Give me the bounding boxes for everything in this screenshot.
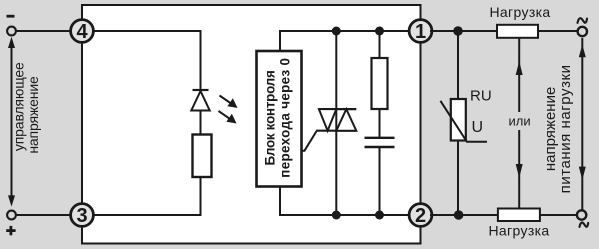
- wire load 1 to AC terminal: [538, 30, 578, 32]
- LED D1 cathode bar: [193, 89, 209, 91]
- or-arrow head up: [516, 61, 523, 75]
- resistor R1: [193, 135, 212, 178]
- svg-text:напряжение: напряжение: [25, 76, 41, 154]
- svg-text:2: 2: [415, 205, 426, 227]
- output bottom rail: [279, 214, 410, 216]
- output top rail: [279, 30, 410, 32]
- triac VS1 right triangle: [336, 109, 356, 131]
- junction dot varistor top: [453, 26, 463, 36]
- varistor wire bottom: [457, 141, 459, 216]
- wire: pin 3 to input terminal plus: [15, 214, 72, 216]
- triac VS1 left triangle: [319, 109, 336, 131]
- junction dot bottom RC: [375, 211, 384, 220]
- input terminal plus (open circle): [7, 211, 16, 220]
- wire: pin 4 to LED branch top: [92, 31, 201, 90]
- svg-text:RU: RU: [470, 88, 492, 105]
- control voltage arrow line: [11, 41, 13, 202]
- svg-text:1: 1: [415, 21, 426, 43]
- svg-text:3: 3: [76, 205, 87, 227]
- wire: resistor R1 bottom to pin 3: [92, 176, 201, 215]
- triac gate wire: [302, 131, 317, 151]
- tilde bottom: [580, 223, 589, 227]
- junction dot varistor bottom: [454, 210, 464, 220]
- snubber resistor R2: [372, 58, 388, 109]
- wire pin 2 to load 2: [430, 214, 499, 216]
- svg-text:питания нагрузки: питания нагрузки: [557, 64, 574, 193]
- load 1 box: [497, 25, 538, 38]
- triac VS1 vertical wire: [335, 31, 337, 215]
- wire pin 1 to load 1: [430, 30, 498, 32]
- load 2 box: [498, 209, 540, 222]
- LED emission arrow 1: [220, 96, 236, 107]
- pin 4 terminal: [71, 20, 94, 43]
- or-arrow head down: [516, 164, 523, 178]
- varistor RU body: [451, 99, 466, 141]
- triac VS1 bottom bar: [316, 130, 356, 132]
- wire R2 to capacitor: [379, 109, 381, 137]
- varistor branch wire top: [457, 31, 459, 99]
- svg-text:или: или: [509, 113, 531, 128]
- pin 1 terminal: [409, 20, 432, 43]
- load supply voltage arrow line: [581, 38, 583, 210]
- varistor diagonal stroke: [440, 101, 487, 142]
- wire: LED to resistor R1: [200, 110, 202, 135]
- tilde top: [578, 18, 588, 23]
- relay body outline: [82, 5, 421, 244]
- zero-cross block connector top: [279, 31, 281, 52]
- LED D1 triangle: [191, 91, 209, 111]
- svg-text:Нагрузка: Нагрузка: [488, 222, 549, 238]
- pin 3 terminal: [71, 204, 94, 227]
- or-arrow line lower: [518, 130, 520, 208]
- svg-text:Нагрузка: Нагрузка: [489, 4, 550, 20]
- junction dot top triac: [332, 27, 341, 36]
- svg-text:4: 4: [76, 21, 88, 43]
- zero-cross block connector bottom: [279, 186, 281, 216]
- input terminal minus (open circle): [7, 27, 16, 36]
- svg-text:перехода через 0: перехода через 0: [278, 58, 293, 178]
- zero-cross control block U1: [257, 51, 302, 187]
- pin 2 terminal: [409, 204, 432, 227]
- AC terminal bottom (open circle): [577, 210, 586, 219]
- svg-text:Блок контроля: Блок контроля: [263, 70, 278, 165]
- AC terminal top (open circle): [578, 27, 587, 36]
- wire load 2 to AC terminal: [540, 214, 577, 216]
- triac VS1 top bar: [319, 108, 356, 110]
- wire: input terminal minus to pin 4: [15, 30, 72, 32]
- minus polarity mark: [7, 15, 15, 18]
- or-arrow line upper: [518, 38, 520, 112]
- svg-text:U: U: [472, 119, 484, 136]
- plus polarity mark: [6, 229, 15, 232]
- wire capacitor to bottom rail: [379, 147, 381, 215]
- LED emission arrow 2: [219, 111, 235, 122]
- junction dot bottom triac: [332, 211, 341, 220]
- snubber branch wire top: [379, 31, 381, 58]
- snubber capacitor C1: [365, 137, 395, 139]
- junction dot top RC: [375, 27, 384, 36]
